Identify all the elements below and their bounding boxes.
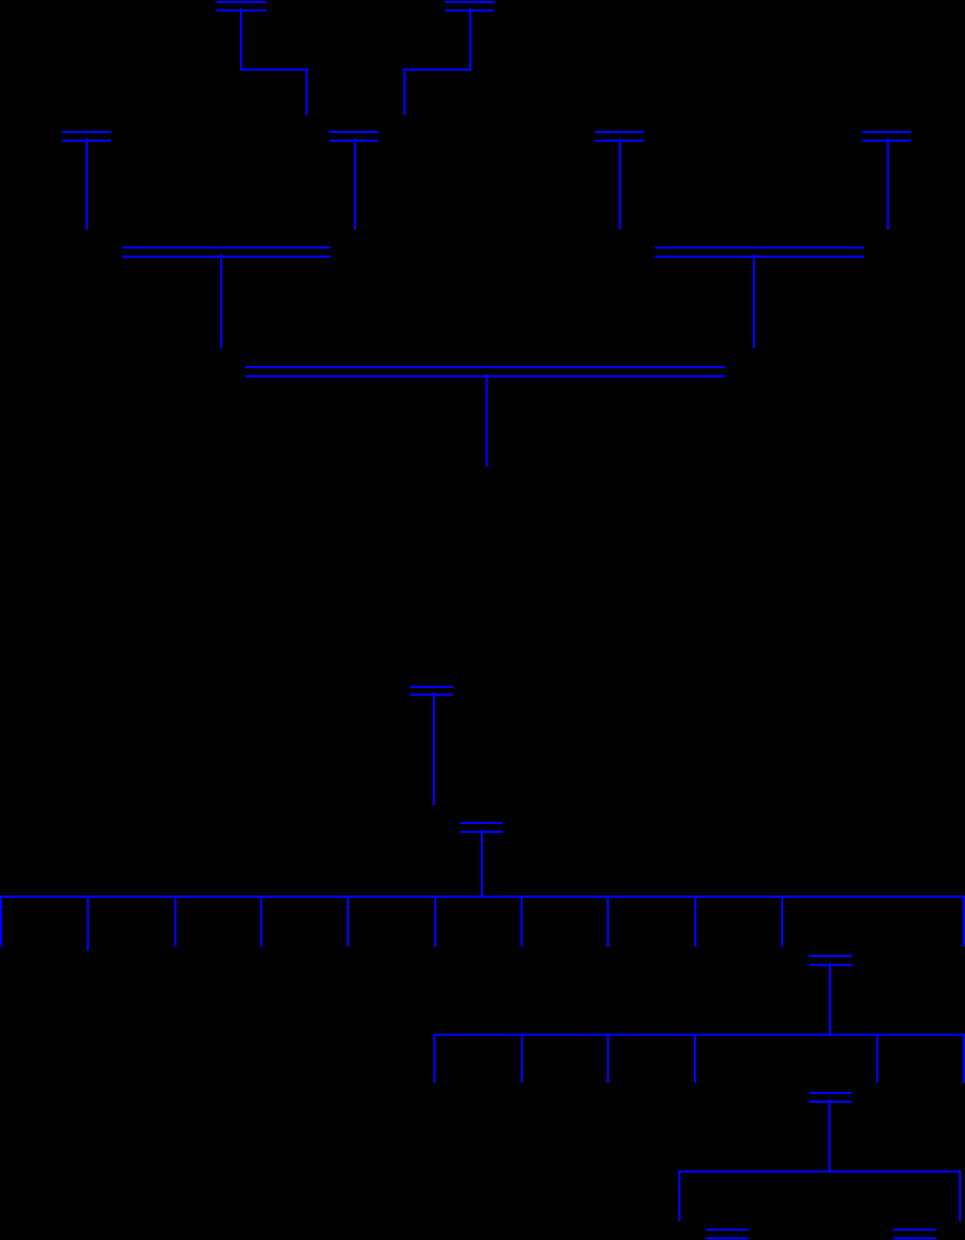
descent line from M-A2 xyxy=(469,8,471,70)
tick G11 (right edge) xyxy=(963,896,965,947)
tick H1 (corner) xyxy=(433,1034,435,1083)
elbow drop to mother (right) xyxy=(403,68,405,115)
tick G5 xyxy=(347,896,349,947)
descent line from M-G1 to sibling rail H xyxy=(829,963,831,1036)
marriage bar M-C2 lower line xyxy=(655,256,864,258)
marriage bar M-C2 upper line xyxy=(655,246,864,248)
marriage bar M-G1 upper line xyxy=(809,955,852,957)
tick G4 xyxy=(260,896,262,947)
marriage bar M-B3 upper line xyxy=(595,131,644,133)
marriage bar M-J1 lower line xyxy=(706,1237,749,1239)
tick G1 (left edge) xyxy=(0,896,2,947)
marriage bar M-H1 lower line xyxy=(809,1101,852,1103)
bracket right drop xyxy=(959,1170,961,1221)
tick H3 xyxy=(607,1034,609,1083)
tick H4 xyxy=(694,1034,696,1083)
bracket left drop xyxy=(678,1170,680,1221)
marriage bar M-B2 lower line xyxy=(329,140,378,142)
marriage bar M-J2 upper line xyxy=(893,1229,936,1231)
descent line from M-B3 xyxy=(619,138,621,229)
children bracket horizontal xyxy=(678,1170,961,1172)
marriage bar M-F1 lower line xyxy=(460,831,503,833)
marriage bar M-B1 lower line xyxy=(62,140,111,142)
descent line from M-E1 xyxy=(433,692,435,805)
descent line from M-D1 xyxy=(486,374,488,467)
tick H2 xyxy=(521,1034,523,1083)
tick G7 xyxy=(521,896,523,947)
marriage bar M-B4 upper line xyxy=(862,131,911,133)
tick G8 xyxy=(607,896,609,947)
marriage bar M-B3 lower line xyxy=(595,140,644,142)
marriage bar M-E1 upper line xyxy=(410,686,453,688)
elbow drop to father (left) xyxy=(306,68,308,115)
sibling rail G horizontal xyxy=(0,896,965,898)
marriage bar M-B4 lower line xyxy=(862,140,911,142)
marriage bar M-J2 lower line xyxy=(893,1237,936,1239)
elbow horizontal from M-A1 xyxy=(240,68,308,70)
tick G2 xyxy=(87,896,89,951)
tick H6 (right edge) xyxy=(963,1034,965,1083)
elbow horizontal from M-A2 xyxy=(403,68,471,70)
marriage bar M-A2 lower line xyxy=(445,9,494,11)
marriage bar M-F1 upper line xyxy=(460,822,503,824)
marriage bar M-A2 upper line xyxy=(445,1,494,3)
descent line from M-F1 to sibling rail xyxy=(481,830,483,898)
sibling rail H horizontal xyxy=(433,1034,965,1036)
descent line from M-H1 to bracket xyxy=(829,1099,831,1172)
marriage bar M-C1 upper line xyxy=(122,246,331,248)
descent line from M-B1 xyxy=(86,138,88,229)
marriage bar M-H1 upper line xyxy=(809,1092,852,1094)
marriage bar M-A1 upper line xyxy=(217,1,267,3)
descent line from M-B2 xyxy=(354,138,356,229)
tick G10 xyxy=(781,896,783,947)
marriage bar M-D1 upper line xyxy=(245,366,725,368)
tick G6 xyxy=(434,896,436,947)
marriage bar M-J1 upper line xyxy=(706,1229,749,1231)
marriage bar M-B2 upper line xyxy=(329,131,378,133)
marriage bar M-D1 lower line xyxy=(245,375,725,377)
marriage bar M-G1 lower line xyxy=(809,964,852,966)
marriage bar M-A1 lower line xyxy=(217,9,267,11)
descent line from M-B4 xyxy=(887,138,889,229)
descent line from M-C1 xyxy=(220,254,222,348)
descent line from M-A1 xyxy=(240,8,242,70)
tick G9 xyxy=(694,896,696,947)
marriage bar M-C1 lower line xyxy=(122,256,331,258)
descent line from M-C2 xyxy=(753,254,755,348)
marriage bar M-E1 lower line xyxy=(410,694,453,696)
tick G3 xyxy=(174,896,176,947)
tick H5 xyxy=(876,1034,878,1083)
marriage bar M-B1 upper line xyxy=(62,131,111,133)
